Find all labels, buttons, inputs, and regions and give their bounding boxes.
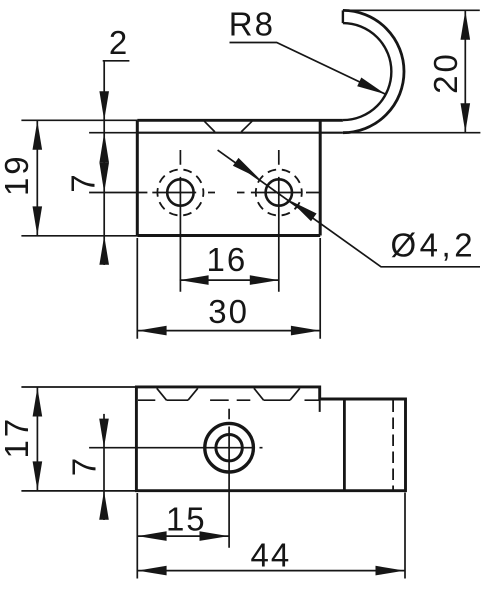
bottom serration mark 1 xyxy=(157,388,198,400)
hook end cap xyxy=(342,10,344,23)
bottom serration mark 2 xyxy=(254,388,300,400)
bottom view divider xyxy=(343,399,346,491)
svg-text:R8: R8 xyxy=(229,5,275,42)
R8 leader xyxy=(230,43,386,95)
svg-text:19: 19 xyxy=(0,153,35,196)
svg-text:16: 16 xyxy=(207,241,248,278)
dim 19 xyxy=(21,120,137,236)
dim 7 front arrows xyxy=(99,163,109,193)
hole right circle xyxy=(266,179,292,205)
svg-text:17: 17 xyxy=(0,416,35,459)
dim 15 xyxy=(137,493,405,579)
bottom view hidden dashed line xyxy=(392,401,394,490)
svg-text:20: 20 xyxy=(427,51,464,94)
dim 7 bottom xyxy=(103,414,105,520)
bottom horizontal centerline xyxy=(89,447,262,449)
hole left circle xyxy=(167,179,193,205)
bottom serration dashed line xyxy=(138,399,320,401)
svg-text:15: 15 xyxy=(166,500,207,537)
dia 4,2 leader xyxy=(218,150,480,267)
dim 16 xyxy=(180,279,279,281)
svg-text:30: 30 xyxy=(208,293,249,330)
extension line 2/20 lower (y=132.3) xyxy=(89,132,480,134)
bottom hole vertical centerline xyxy=(228,409,230,548)
svg-text:7: 7 xyxy=(64,174,101,192)
bottom view outline xyxy=(136,387,405,491)
dim 2 xyxy=(103,61,130,265)
hole right dashed circle xyxy=(256,170,302,216)
dim 30 xyxy=(137,238,320,339)
hole left vertical centerline xyxy=(179,150,181,292)
bottom view step stub xyxy=(319,399,321,412)
hole left dashed circle xyxy=(157,170,203,216)
svg-text:7: 7 xyxy=(65,458,102,476)
dim 44 xyxy=(137,570,405,572)
front view sheet top edge xyxy=(137,119,343,122)
hook inner arc xyxy=(343,23,391,120)
front view plate outline xyxy=(137,120,320,235)
front horizontal centerline xyxy=(89,192,321,194)
hook outer arc xyxy=(343,10,404,132)
bottom hole inner circle xyxy=(216,435,242,461)
svg-text:Ø4,2: Ø4,2 xyxy=(391,226,477,263)
front bend/dimple mark xyxy=(204,121,252,132)
inner sheet line (visible edge) xyxy=(137,132,343,134)
dim 17 xyxy=(21,387,136,491)
dim 20 xyxy=(350,9,480,11)
svg-text:2: 2 xyxy=(109,24,127,61)
svg-text:44: 44 xyxy=(251,536,292,573)
hole right vertical centerline xyxy=(278,150,280,292)
bottom hole outer circle xyxy=(205,423,254,472)
